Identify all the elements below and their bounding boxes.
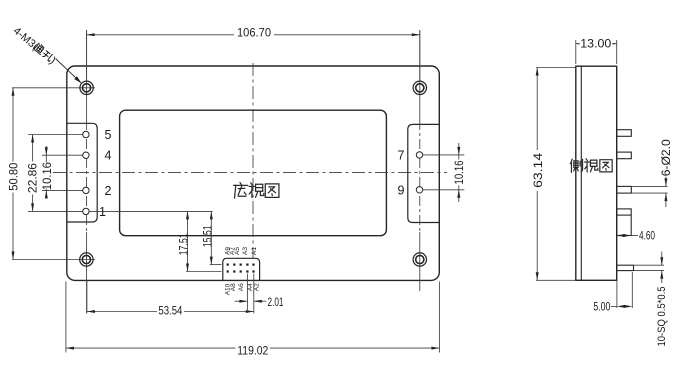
right hole centerline vertical bbox=[419, 30, 421, 120]
side connector tab bbox=[617, 209, 632, 236]
extension line 15.51 bottom (connector row1) bbox=[210, 264, 222, 266]
extension line hole bottom-left horizontal bbox=[12, 259, 95, 261]
dimension 50.80 left bbox=[12, 88, 14, 162]
label 4-M3 through-hole with leader bbox=[11, 25, 41, 53]
extension line pin1 (extends right to 15.51 dim) bbox=[28, 210, 83, 212]
svg-text:22.86: 22.86 bbox=[26, 163, 40, 193]
svg-text:119.02: 119.02 bbox=[237, 343, 268, 357]
extension line pin2 bbox=[42, 189, 83, 191]
svg-text:5.00: 5.00 bbox=[593, 299, 610, 313]
pin 9 circle bbox=[416, 187, 422, 193]
svg-text:4.60: 4.60 bbox=[639, 229, 655, 243]
mounting hole bottom-right bbox=[413, 253, 426, 266]
svg-text:17.51: 17.51 bbox=[177, 233, 191, 255]
side pin upper 1 bbox=[617, 130, 632, 137]
dimension 13.00 top of side view bbox=[575, 40, 577, 64]
svg-text:10.16: 10.16 bbox=[40, 162, 54, 190]
svg-text:A3: A3 bbox=[242, 247, 249, 255]
svg-text:1: 1 bbox=[99, 205, 106, 219]
bottom connector block bbox=[223, 258, 260, 280]
svg-text:10.16: 10.16 bbox=[452, 160, 466, 184]
svg-text:A1: A1 bbox=[251, 247, 258, 255]
svg-text:7: 7 bbox=[398, 148, 405, 162]
left hole centerline vertical bbox=[86, 30, 88, 120]
extension lines 2.01 columns bbox=[246, 274, 248, 311]
svg-text:50.80: 50.80 bbox=[7, 162, 21, 190]
mounting hole top-right bbox=[413, 81, 426, 94]
dimension 4.60 bbox=[631, 235, 638, 237]
svg-text:2.01: 2.01 bbox=[268, 295, 284, 309]
svg-text:9: 9 bbox=[398, 183, 405, 197]
connector pin dots 2x5 bbox=[227, 264, 229, 266]
svg-text:A8: A8 bbox=[230, 283, 237, 291]
dimension 10.16 right (arrows outside) bbox=[458, 143, 460, 155]
mounting hole top-left bbox=[80, 81, 93, 94]
dimension 5.00 bottom bbox=[616, 280, 618, 308]
svg-text:A6: A6 bbox=[238, 283, 245, 291]
horizontal centerline bbox=[53, 172, 447, 174]
view title text 侧视图 bbox=[570, 159, 582, 172]
svg-text:106.70: 106.70 bbox=[237, 25, 271, 39]
module body outline (bottom view) bbox=[67, 66, 440, 280]
pin 5 circle bbox=[83, 131, 89, 137]
pin 4 circle bbox=[83, 152, 89, 158]
pin 2 circle bbox=[83, 187, 89, 193]
dimension 22.86 left bbox=[32, 135, 34, 162]
extension line 17.51 bottom (connector row2) bbox=[186, 271, 222, 273]
dimension 10-SQ 0.5x0.5 bottom right bbox=[634, 264, 665, 266]
dimension 119.02 bottom bbox=[65, 282, 67, 353]
svg-text:10-SQ 0.5*0.5: 10-SQ 0.5*0.5 bbox=[656, 287, 668, 347]
svg-text:2: 2 bbox=[105, 184, 112, 198]
svg-text:4-M3(: 4-M3( bbox=[11, 25, 41, 53]
side view inner flange line bbox=[580, 66, 582, 280]
side bottom square pin bbox=[617, 265, 634, 270]
right pin block bbox=[408, 124, 440, 222]
dimension 10.16 left (arrows outside) bbox=[45, 146, 47, 155]
svg-text:4: 4 bbox=[105, 149, 112, 163]
inner recess rectangle bbox=[120, 110, 387, 236]
dimension 53.54 bbox=[86, 280, 88, 313]
view title text 底视图 bbox=[234, 183, 248, 199]
svg-text:53.54: 53.54 bbox=[158, 303, 182, 317]
svg-text:13.00: 13.00 bbox=[580, 37, 611, 51]
extension line pin9 bbox=[423, 189, 464, 191]
svg-text:6-Ø2.0: 6-Ø2.0 bbox=[661, 139, 673, 176]
side pin upper 2 bbox=[617, 152, 632, 159]
dimension 15.51 vertical bbox=[210, 211, 212, 264]
svg-text:A2: A2 bbox=[253, 283, 260, 291]
dimension 63.14 left of side view bbox=[536, 67, 576, 69]
svg-text:15.51: 15.51 bbox=[201, 225, 215, 247]
pin 7 circle bbox=[416, 152, 422, 158]
svg-text:A5: A5 bbox=[234, 247, 241, 255]
extension line pin4 bbox=[42, 154, 83, 156]
dimension 6-dia2.0 right bbox=[631, 185, 667, 187]
dimension 2.01 (arrows outside) bbox=[235, 300, 248, 302]
side pin 3 (dia 2.0) bbox=[617, 186, 632, 193]
dimension 17.51 vertical bbox=[187, 211, 189, 271]
mounting hole bottom-left bbox=[80, 253, 93, 266]
side view body outline bbox=[576, 66, 617, 280]
pin 1 circle bbox=[83, 208, 89, 214]
extension line hole top-left horizontal bbox=[12, 87, 95, 89]
dimension 106.70 top bbox=[87, 34, 234, 36]
extension line pin5 bbox=[28, 134, 83, 136]
extension line pin7 bbox=[423, 154, 464, 156]
svg-text:5: 5 bbox=[105, 128, 112, 142]
svg-text:63.14: 63.14 bbox=[531, 153, 545, 188]
vertical centerline bbox=[252, 63, 254, 258]
left pin block bbox=[67, 123, 97, 222]
leader line to mounting hole bbox=[56, 59, 81, 83]
